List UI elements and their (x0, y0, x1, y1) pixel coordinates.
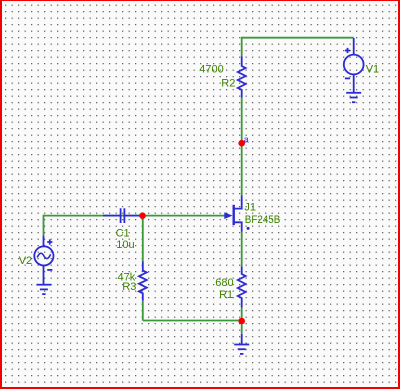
svg-text:V1: V1 (366, 63, 379, 75)
svg-text:680: 680 (215, 277, 233, 289)
svg-text:a: a (244, 134, 249, 144)
svg-text:R1: R1 (219, 289, 233, 301)
svg-text:C1: C1 (116, 228, 130, 240)
svg-text:4700: 4700 (199, 64, 223, 76)
svg-text:V2: V2 (19, 255, 32, 267)
svg-text:10u: 10u (116, 239, 134, 251)
svg-text:J1: J1 (244, 202, 256, 214)
svg-text:R3: R3 (122, 281, 136, 293)
svg-text:BF245B: BF245B (245, 214, 280, 226)
svg-text:R2: R2 (221, 77, 235, 89)
